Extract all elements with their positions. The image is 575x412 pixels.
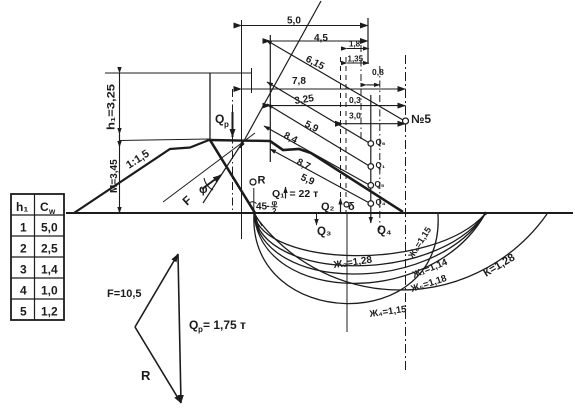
svg-text:1,0: 1,0 [41, 284, 58, 298]
slip circle arc K5 [254, 214, 485, 274]
svg-text:φ: φ [199, 182, 208, 196]
arc fan left [255, 214, 262, 228]
node circle Q1 [368, 164, 374, 170]
node circle R [250, 179, 256, 185]
dim 3,0 [343, 123, 406, 125]
table border [11, 194, 64, 320]
dashed vertical x=342.5 [340, 57, 342, 213]
svg-text:= 1,75 т: = 1,75 т [203, 318, 246, 332]
svg-text:К=1,28: К=1,28 [481, 251, 517, 279]
svg-text:0,8: 0,8 [372, 67, 384, 77]
steep construction line L3 [203, 140, 244, 203]
ray 8,7 [264, 126, 369, 185]
dim 4,5 [270, 40, 368, 42]
node circle Q6 [368, 141, 374, 147]
svg-text:3,0: 3,0 [349, 111, 361, 121]
svg-text:w: w [48, 207, 56, 216]
svg-text:М=3,45: М=3,45 [109, 159, 120, 193]
svg-text:R: R [141, 368, 151, 383]
ground line [66, 212, 573, 214]
svg-text:1,35: 1,35 [348, 55, 364, 64]
svg-text:1:1,5: 1:1,5 [124, 148, 152, 172]
force polygon R side [135, 327, 181, 403]
ray 5,9 lower [270, 149, 369, 203]
Q3 arrow [316, 213, 318, 225]
dim 1,8 [347, 48, 369, 50]
Q2 delta arrow [340, 199, 342, 214]
berm level line y=140 [119, 139, 210, 141]
dim 7,8 [242, 88, 406, 90]
extension vertical x=270 [269, 35, 271, 162]
svg-text:p: p [224, 120, 229, 129]
node circle on ray pole [403, 118, 409, 124]
dim 1,35 [347, 62, 369, 64]
crest top line [209, 140, 270, 141]
svg-text:Ж₄=1,15: Ж₄=1,15 [368, 304, 408, 320]
slip circle arc K1 [254, 214, 485, 266]
svg-text:3: 3 [20, 263, 27, 277]
extension vertical stub x=251.5 [251, 68, 253, 93]
dash-dot vertical x=361 [360, 45, 362, 140]
svg-text:Q₄: Q₄ [377, 225, 391, 237]
svg-text:Q₄: Q₄ [376, 198, 386, 207]
dashed vertical x=346.5 [345, 57, 347, 213]
dim 3,25 / 0,3 [270, 105, 405, 107]
slip circle arc K big [254, 214, 547, 290]
svg-text:4,5: 4,5 [314, 33, 328, 44]
svg-text:Q₅: Q₅ [375, 180, 385, 189]
node circle Q5 [368, 183, 374, 189]
45-phi angle arc at wedge base [249, 202, 257, 204]
svg-text:F: F [180, 193, 195, 208]
svg-text:= 22 т: = 22 т [290, 188, 319, 200]
svg-text:Q₁: Q₁ [376, 161, 386, 170]
svg-text:1: 1 [20, 221, 27, 235]
table column divider [34, 194, 36, 320]
wedge line 45+phi/2 [210, 140, 255, 213]
dimension vertical h1 and M [119, 73, 121, 213]
slip circle arc K2 [254, 214, 485, 256]
F force arrow [202, 175, 221, 189]
extension vertical x=368 [367, 18, 369, 64]
svg-text:Q₂: Q₂ [321, 201, 335, 213]
svg-text:Q₆: Q₆ [376, 138, 386, 147]
svg-text:Q: Q [215, 112, 224, 126]
dash-dot wall axis [232, 89, 234, 213]
wall vertical at crest [209, 73, 211, 140]
F direction line [163, 133, 255, 202]
arc convergence node right [483, 212, 487, 216]
svg-text:F=10,5: F=10,5 [107, 288, 142, 300]
force polygon F side [135, 254, 178, 327]
svg-text:2: 2 [272, 207, 277, 216]
svg-text:7,8: 7,8 [292, 76, 306, 87]
svg-text:h₁: h₁ [16, 200, 28, 214]
svg-text:6,15: 6,15 [304, 54, 327, 73]
svg-text:δ: δ [348, 201, 355, 213]
dim tick at berm [119, 134, 121, 147]
slip circle arc K6 shallow [254, 214, 485, 283]
dash-dot axis x=405.5 [405, 55, 407, 372]
top level line y=73 [105, 72, 251, 74]
svg-text:1,2: 1,2 [41, 305, 58, 319]
Qp force arrow [232, 112, 234, 137]
phi angle arc [204, 178, 213, 190]
svg-text:2: 2 [20, 242, 27, 256]
Q4 below-ground arrow [370, 213, 372, 223]
svg-text:Ж₆=1,15: Ж₆=1,15 [406, 225, 434, 261]
node circle Q4 [368, 201, 374, 207]
Q1=22 arrow [285, 187, 287, 199]
svg-text:1,4: 1,4 [41, 263, 58, 277]
svg-text:4: 4 [20, 284, 27, 298]
ray 6,15 [266, 40, 403, 120]
svg-text:Q₃: Q₃ [317, 226, 331, 238]
svg-text:С: С [40, 200, 49, 214]
svg-text:5,0: 5,0 [287, 16, 301, 27]
svg-text:0,3: 0,3 [349, 95, 361, 105]
svg-text:Q: Q [189, 318, 198, 332]
ray 5,9 upper [267, 82, 369, 143]
slope face 1:1.5 [74, 140, 209, 213]
slip circle arc K4 deep [254, 214, 438, 304]
svg-text:h₁=3,25: h₁=3,25 [106, 84, 118, 130]
slip surface thick line [270, 141, 403, 212]
dim 5,0 [242, 25, 369, 27]
svg-text:3,25: 3,25 [294, 93, 315, 107]
svg-text:Ж₂=1,28: Ж₂=1,28 [332, 255, 373, 271]
steep construction line L1 [240, 1, 321, 148]
below-ground vertical x=348.5 [346, 213, 348, 332]
dim 0,8 [366, 84, 379, 86]
svg-text:№5: №5 [411, 112, 431, 126]
svg-text:R: R [258, 175, 266, 187]
svg-text:5,9: 5,9 [299, 172, 317, 188]
table row lines [11, 215, 64, 299]
svg-text:5,9: 5,9 [303, 119, 321, 135]
vertical reference at 45-phi vertex [253, 188, 255, 214]
svg-text:5,0: 5,0 [41, 221, 58, 235]
force line Q vertical x=370.8 [370, 95, 372, 214]
svg-text:Q₁: Q₁ [272, 188, 285, 200]
svg-text:-: - [267, 201, 270, 212]
ray 8,4 [267, 104, 369, 166]
force polygon Qp side [178, 254, 181, 403]
dash-dot vertical x=379.8 [379, 66, 381, 230]
node circle delta [344, 202, 349, 207]
extension vertical x=241.5 [241, 20, 243, 239]
svg-text:2,5: 2,5 [41, 242, 58, 256]
svg-text:5: 5 [20, 305, 27, 319]
svg-text:1,8: 1,8 [349, 40, 361, 49]
